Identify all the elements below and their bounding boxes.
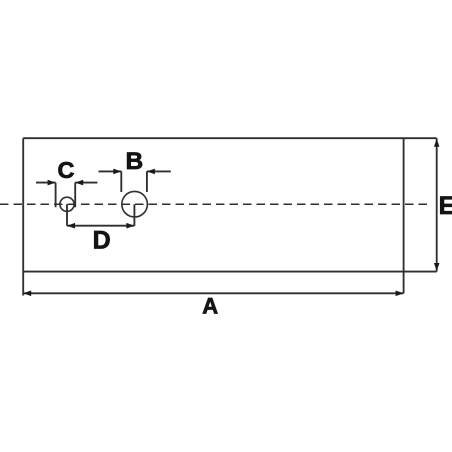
arrow C right — [75, 180, 83, 186]
arrow E top — [434, 139, 440, 147]
arrow A right — [396, 291, 404, 297]
arrow D left — [67, 223, 75, 229]
dimension C lines — [36, 183, 97, 208]
arrow D right — [126, 223, 134, 229]
svg-text:A: A — [202, 293, 218, 318]
arrow A left — [23, 291, 31, 297]
arrow B left — [113, 169, 121, 175]
plate top edge — [23, 137, 437, 139]
hole small — [60, 197, 74, 211]
arrow C left — [48, 180, 56, 186]
svg-text:D: D — [93, 227, 111, 255]
plate left edge (extended down as A extension line) — [22, 138, 24, 295]
dimension B lines — [99, 171, 171, 192]
centerline — [0, 203, 427, 205]
svg-text:B: B — [125, 148, 143, 175]
plate bottom edge — [23, 271, 437, 273]
inner vertical line (A right extension) — [403, 138, 405, 293]
dimension D lines — [67, 204, 134, 225]
svg-text:C: C — [58, 157, 75, 183]
arrow B right — [147, 169, 155, 175]
plate right edge / dimension E line — [436, 138, 438, 271]
arrow E bottom — [434, 263, 440, 271]
svg-text:E: E — [439, 192, 452, 220]
dimension A line — [23, 292, 403, 294]
hole large — [122, 191, 148, 217]
